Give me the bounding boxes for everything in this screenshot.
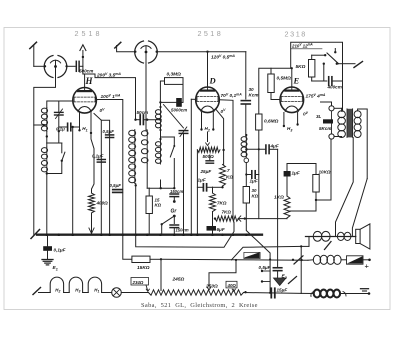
switch mains contact 3 bbox=[323, 63, 325, 65]
capacitor 500cm bbox=[75, 61, 77, 71]
coil L5 tuning right bbox=[146, 130, 148, 164]
svg-text:1KΩ: 1KΩ bbox=[274, 195, 284, 201]
wire 0,6M top to grid wire bbox=[259, 68, 292, 114]
wire terminal1 stub bbox=[331, 102, 333, 106]
speaker horn bbox=[360, 224, 370, 249]
triode E bbox=[280, 87, 304, 113]
wire A heater feed bbox=[136, 222, 234, 247]
svg-text:Saba, 521 GL, Gleichstrom,: Saba, 521 GL, Gleichstrom, 2 Kreise bbox=[141, 302, 258, 309]
node grid coil top bbox=[159, 101, 161, 103]
svg-text:1μF: 1μF bbox=[250, 179, 258, 184]
capacitor 1uF cathode bbox=[202, 184, 204, 191]
switch mains contact 4 bbox=[336, 63, 338, 65]
wire coil L5 to resistor bbox=[146, 164, 148, 189]
wire coil column join bbox=[160, 180, 162, 188]
capacitor 0,1uF heater-block bbox=[67, 123, 69, 131]
switch Gr lower bbox=[162, 216, 175, 224]
wire antenna line tap bbox=[34, 124, 47, 126]
svg-text:25μF: 25μF bbox=[200, 169, 212, 174]
node 7Kh right bbox=[244, 217, 246, 219]
wire cap branch to bus bbox=[72, 127, 74, 235]
wire contact3 down bbox=[323, 64, 325, 81]
node coil L6 top bbox=[159, 106, 161, 108]
wire switch to Gr column bbox=[173, 159, 175, 189]
wire primary top to terminal bbox=[341, 108, 343, 111]
wire 7K lower to cap 6uF bbox=[212, 212, 214, 225]
capacitor 0,1uF ground bbox=[43, 246, 52, 251]
wire band switch down bbox=[47, 161, 62, 174]
node L7 top bbox=[159, 138, 161, 140]
node rheostat end bbox=[244, 291, 246, 293]
svg-text:40Ω: 40Ω bbox=[227, 283, 237, 288]
svg-text:D: D bbox=[209, 76, 216, 86]
wire filament2 down to 400ohm bbox=[91, 133, 94, 193]
wire coil L2 top bbox=[47, 101, 73, 108]
resistor 1Kohm bbox=[284, 196, 290, 218]
wire output drop bbox=[308, 237, 310, 247]
terminal circle L9 bbox=[244, 158, 249, 163]
power box outline bbox=[291, 42, 343, 110]
svg-text:150cm: 150cm bbox=[170, 189, 183, 194]
svg-text:H: H bbox=[85, 76, 94, 86]
wire band switch feed bbox=[47, 142, 62, 144]
wire terminal2 to winding bottom bbox=[334, 136, 342, 138]
wire tube E grid drop bbox=[291, 68, 293, 87]
bus node x109.6 bbox=[108, 233, 111, 236]
wire 0,3M right lead bbox=[182, 81, 184, 102]
label box 40ohm bbox=[226, 281, 237, 288]
wire 30Kcm to coil bbox=[245, 104, 247, 136]
antenna 2 symbol bbox=[115, 42, 121, 48]
resistor 15Kohm vertical bbox=[146, 196, 152, 214]
wire tube D cathode diag bbox=[216, 110, 224, 151]
wire grid col to cluster diag bbox=[246, 219, 270, 260]
wire 0,1uF branch line bbox=[100, 120, 102, 235]
resistor 400ohm bbox=[89, 193, 95, 213]
transformer core bbox=[347, 109, 353, 138]
svg-text:250Ω: 250Ω bbox=[205, 284, 218, 290]
capacitor 0,5uF anode-branch bbox=[106, 134, 114, 136]
svg-text:+: + bbox=[365, 262, 370, 271]
wire row1 drop bbox=[160, 259, 162, 290]
wire grid stub tube H bbox=[84, 74, 86, 88]
wire speaker lead 1 bbox=[336, 138, 354, 237]
wire row2 to cluster bbox=[244, 292, 302, 295]
switch mains contact 1 bbox=[324, 54, 326, 56]
speaker driver bbox=[356, 229, 360, 243]
capacitor 5Kcm speaker bbox=[323, 119, 333, 123]
svg-text:E: E bbox=[293, 76, 300, 86]
resistor 15Kohm horizontal bbox=[132, 256, 150, 262]
rheostat 245ohm bbox=[149, 290, 244, 295]
wire lamp to rheostat bbox=[121, 292, 148, 294]
wire trimmer to bus bbox=[183, 133, 185, 234]
svg-text:7KΩ: 7KΩ bbox=[222, 210, 232, 215]
bus node x160.5 bbox=[159, 233, 162, 236]
resistor 0,5Mohm bbox=[268, 74, 274, 93]
wire 4uF corner down long bbox=[277, 149, 279, 267]
output coil bumps 2 bbox=[337, 232, 344, 240]
output line to speaker bbox=[306, 236, 356, 238]
svg-text:2518: 2518 bbox=[75, 29, 103, 38]
capacitor 4uF bbox=[265, 145, 267, 154]
switch mains lever bbox=[327, 53, 339, 64]
wire cluster link row1 bbox=[269, 260, 271, 293]
svg-text:KΩ: KΩ bbox=[155, 203, 162, 208]
bus node x191.3 bbox=[190, 233, 193, 236]
wire 0,3M left lead bbox=[160, 81, 164, 102]
svg-text:400cm: 400cm bbox=[327, 85, 342, 90]
wire cap to filament bbox=[71, 126, 80, 128]
wire to plus terminal bbox=[363, 259, 370, 261]
node coupler L1 left bbox=[44, 65, 46, 67]
bus node x101.3 bbox=[100, 233, 103, 236]
wire L6 to L7 bbox=[160, 129, 162, 142]
svg-text:500cm: 500cm bbox=[79, 68, 93, 73]
wire junction down to grid corner bbox=[82, 66, 84, 74]
wire tube D anode lead bbox=[219, 100, 233, 219]
wire 5K bottom bbox=[311, 77, 313, 81]
svg-text:0,3MΩ: 0,3MΩ bbox=[167, 72, 182, 78]
switch Gr upper bbox=[173, 137, 175, 146]
wire coil L4 to bus bbox=[135, 184, 137, 235]
wire 10K bottom net bbox=[315, 192, 317, 211]
svg-text:10KΩ: 10KΩ bbox=[319, 170, 331, 175]
bus node x233.0 bbox=[232, 233, 235, 236]
wire 15K to row1 bbox=[150, 258, 161, 260]
svg-text:0,1μF: 0,1μF bbox=[54, 248, 66, 253]
node coupler L8 right bbox=[156, 51, 158, 53]
coil L6 detector bbox=[160, 109, 162, 129]
capacitor cathode bypass bbox=[206, 160, 214, 162]
label box 234ohm bbox=[131, 278, 149, 286]
bus node x246.3 bbox=[245, 233, 248, 236]
wire coupler L8 down bbox=[145, 54, 147, 131]
antenna coil L2 bbox=[46, 108, 48, 132]
resistor 7Kohm horizontal bbox=[215, 216, 239, 221]
capacitor 6uF bbox=[207, 226, 217, 231]
svg-text:KΩ: KΩ bbox=[252, 194, 259, 199]
svg-text:KΩ: KΩ bbox=[226, 175, 233, 180]
output coil bumps 1 bbox=[313, 231, 322, 241]
wire tube D left grid lead bbox=[191, 98, 195, 100]
wire anode top corner down bbox=[245, 52, 247, 99]
transformer secondary winding bbox=[354, 111, 361, 118]
capacitor 150cm upper Gr bbox=[170, 193, 179, 195]
transformer primary winding bbox=[338, 111, 346, 118]
wire trimmer join coil bbox=[58, 131, 60, 143]
capacitor 15uF bbox=[270, 288, 272, 297]
node Gr terminal 1 bbox=[173, 200, 176, 203]
svg-text:400Ω: 400Ω bbox=[96, 201, 109, 206]
wire L9 to 30K bbox=[245, 163, 247, 187]
bus node x174.3 bbox=[173, 233, 176, 236]
svg-text:0,5MΩ: 0,5MΩ bbox=[277, 76, 292, 82]
coil L7 detector bbox=[160, 141, 162, 164]
capacitor 30Kcm bbox=[241, 100, 250, 102]
wire 7K bottom junction bbox=[222, 186, 224, 187]
svg-text:234Ω: 234Ω bbox=[132, 280, 144, 285]
coupler L8 bbox=[135, 41, 158, 63]
wire tube H anode lead bbox=[96, 100, 122, 235]
resistor 10Kohm bbox=[313, 175, 319, 193]
wire tube D grid drop bbox=[207, 52, 209, 88]
wire trimmer down bbox=[58, 116, 60, 131]
dial lamp bbox=[112, 288, 122, 298]
capacitor 1uF det bbox=[251, 171, 253, 179]
resistor 7Kohm upper bbox=[220, 165, 226, 187]
ground symbol E2 bbox=[274, 278, 287, 286]
triode H bbox=[73, 88, 97, 114]
triode D bbox=[196, 87, 220, 113]
switch mains contact 2 bbox=[334, 51, 336, 53]
node L9 top bbox=[245, 134, 247, 136]
node coil L6 bottom bbox=[159, 129, 161, 131]
wire 400cm to box edge bbox=[332, 80, 343, 82]
trimmer capacitor antenna bbox=[58, 101, 60, 112]
node coupler L1 right bbox=[65, 65, 67, 67]
bus node x197.4 bbox=[196, 233, 199, 236]
node coil L3 bottom bbox=[46, 172, 48, 174]
wire riser to output bbox=[301, 245, 309, 247]
wire box edge to winding bbox=[341, 110, 344, 112]
node Gr terminal 2 bbox=[173, 215, 176, 218]
wire Gr column mid bbox=[173, 197, 175, 202]
wire grid top run bbox=[83, 74, 136, 120]
svg-text:2318: 2318 bbox=[285, 29, 307, 38]
wire coil L6 top bbox=[160, 102, 162, 110]
wire 4uF link bbox=[246, 148, 266, 150]
svg-text:4μF: 4μF bbox=[270, 143, 279, 148]
detector coil L9 bbox=[245, 136, 247, 158]
mains switch tick bbox=[354, 62, 363, 68]
wire row2 start bbox=[39, 292, 51, 294]
bus node x135.7 bbox=[134, 233, 137, 236]
terminal circle speaker 1 bbox=[329, 106, 334, 111]
bus left tick bbox=[31, 230, 40, 239]
svg-text:0,6MΩ: 0,6MΩ bbox=[264, 119, 279, 125]
node coupler L8 left bbox=[134, 51, 136, 53]
svg-text:Kcm: Kcm bbox=[249, 93, 259, 98]
capacitor 0,5uF coupling lower bbox=[113, 189, 123, 191]
supply row 1 bbox=[161, 258, 232, 261]
wire 1uF link bbox=[246, 174, 252, 176]
wire pot feed arrow bbox=[207, 132, 209, 142]
resistor 30Kohm bbox=[243, 187, 249, 204]
fuse resistor hatched bbox=[347, 256, 364, 264]
resistor 7Kohm lower bbox=[210, 193, 216, 212]
wire cap to trimmer col bbox=[59, 126, 68, 128]
wire C-500cm to junction bbox=[79, 65, 83, 67]
bus node x122.8 bbox=[122, 233, 125, 236]
svg-text:30: 30 bbox=[249, 87, 255, 92]
wire pot left column bbox=[196, 150, 198, 235]
wire left vertical from coupler bbox=[34, 68, 56, 235]
wire tube E filament 1 bbox=[283, 113, 285, 127]
wire 1K bottom join bbox=[246, 218, 287, 220]
wire antenna1 to coupler bbox=[34, 65, 45, 67]
resistor 0,3Mohm bbox=[165, 78, 184, 85]
wire 0,5M bottom to tube E bbox=[271, 93, 280, 100]
wire 50cm link bbox=[136, 119, 141, 121]
svg-text:30: 30 bbox=[252, 188, 257, 193]
cluster terminal stubs bbox=[262, 270, 270, 272]
wire switch out bbox=[337, 63, 343, 65]
wire bus drop 15K bbox=[123, 235, 132, 260]
bus node x147.2 bbox=[146, 233, 149, 236]
resistor 5Kohm bbox=[309, 60, 315, 78]
wire 10K to left bbox=[290, 210, 316, 212]
wire tube D filament 1 bbox=[201, 112, 203, 129]
wire 30K to bus wire bbox=[245, 203, 247, 219]
capacitor 150cm lower Gr bbox=[170, 224, 179, 226]
wire drop to row2 bbox=[300, 246, 302, 293]
wedge volume bbox=[245, 253, 260, 258]
capacitor 0,1uF left-branch bbox=[97, 159, 105, 161]
svg-text:5KΩ: 5KΩ bbox=[296, 64, 306, 70]
node pot right bbox=[222, 149, 224, 151]
chassis bus bbox=[37, 234, 262, 236]
trimmer capacitor detector bbox=[179, 130, 188, 132]
capacitor 25uF bbox=[203, 159, 206, 161]
wire 0,6M column bbox=[258, 130, 260, 219]
wire grammophone feed bbox=[149, 187, 174, 189]
wire row1 riser bbox=[232, 246, 302, 259]
capacitor 50cm bbox=[139, 115, 141, 125]
bus node x222.5 bbox=[221, 233, 224, 236]
bus node x212.5 bbox=[211, 233, 214, 236]
band switch antenna bbox=[62, 152, 65, 161]
wire coil L5b bbox=[146, 129, 147, 131]
wire coupling row bbox=[287, 163, 316, 165]
bus node x183.5 bbox=[182, 233, 185, 236]
svg-text:5Kcm: 5Kcm bbox=[319, 126, 332, 131]
wire tube H filament lead 1 bbox=[79, 113, 81, 131]
capacitor 5000cm bbox=[176, 98, 182, 107]
wire coupler L1 to C-500cm bbox=[67, 65, 75, 67]
svg-text:5000cm: 5000cm bbox=[171, 108, 187, 113]
row1 switch tick bbox=[292, 259, 294, 261]
antenna coil L3 bbox=[46, 147, 48, 173]
bus node x58.8 bbox=[58, 233, 61, 236]
wire Gr cap to bus bbox=[173, 228, 175, 235]
capacitor 1uF coupling bbox=[284, 171, 291, 177]
svg-text:500Ω: 500Ω bbox=[203, 154, 215, 159]
node 50cm left bbox=[134, 119, 136, 121]
svg-text:3L: 3L bbox=[316, 114, 322, 119]
wire speaker lead 2 bbox=[352, 179, 367, 237]
heater ballast bumps bbox=[50, 277, 63, 292]
svg-text:0,5μF: 0,5μF bbox=[110, 183, 122, 188]
svg-text:0,5μF: 0,5μF bbox=[259, 265, 271, 270]
svg-text:7: 7 bbox=[227, 168, 230, 173]
svg-text:245Ω: 245Ω bbox=[172, 277, 185, 283]
wire volume wiper bbox=[209, 260, 236, 287]
svg-text:15KΩ: 15KΩ bbox=[137, 265, 150, 271]
capacitor 0,5uF output bbox=[273, 267, 282, 269]
antenna 1 symbol bbox=[30, 42, 37, 48]
wire diagonal to trimmer bbox=[164, 105, 184, 129]
speaker switch tick bbox=[325, 242, 332, 250]
wire coil L3 to bus bbox=[46, 173, 48, 235]
wire 400ohm to bus arrow bbox=[91, 213, 93, 234]
wire tube E filament 2 bbox=[297, 113, 299, 125]
svg-text:150cm: 150cm bbox=[176, 228, 189, 233]
svg-text:1μF: 1μF bbox=[292, 171, 300, 176]
svg-text:0,5μF: 0,5μF bbox=[103, 129, 115, 134]
svg-text:1μF: 1μF bbox=[198, 178, 206, 183]
row2 left tick bbox=[33, 288, 41, 295]
potentiometer 500ohm bbox=[197, 147, 220, 152]
wire L7 switch branch bbox=[161, 136, 175, 138]
wire cathode cap link bbox=[197, 186, 203, 188]
svg-text:15μF: 15μF bbox=[277, 288, 288, 293]
coupler L1 bbox=[44, 55, 67, 77]
ground symbol E1 bbox=[42, 260, 53, 265]
coil L4 tuning left bbox=[134, 130, 136, 184]
capacitor 400cm bbox=[328, 77, 330, 86]
wire tube H filament lead 2 bbox=[90, 113, 92, 133]
node coil L2 bottom bbox=[46, 135, 48, 137]
row2 switch tick bbox=[289, 277, 297, 284]
node tube D grid tap bbox=[206, 51, 208, 53]
bus node x46.8 bbox=[46, 233, 49, 236]
svg-text:2518: 2518 bbox=[198, 29, 224, 38]
row1 choke coil bbox=[313, 255, 320, 264]
row2 filter coil bbox=[314, 290, 321, 298]
svg-text:6μF: 6μF bbox=[217, 227, 225, 232]
node 7Kh left bbox=[214, 217, 216, 219]
wire anode supply top bbox=[157, 51, 246, 53]
minus terminal bars bbox=[361, 288, 369, 290]
wire secondary top bbox=[358, 109, 368, 179]
wave-trap arrow up bbox=[82, 51, 84, 67]
wire tube D filament 2 bbox=[212, 112, 214, 129]
wire to minus terminal bbox=[356, 293, 369, 295]
svg-text:7KΩ: 7KΩ bbox=[217, 201, 227, 206]
terminal circle speaker 2 bbox=[329, 134, 334, 139]
bus node x72.7 bbox=[71, 233, 74, 236]
wire 5000cm link bbox=[160, 101, 176, 103]
wire 5K top bbox=[311, 55, 313, 59]
node coil L4 bottom bbox=[135, 184, 137, 186]
wire tube D grid return bbox=[190, 99, 192, 234]
wire pot right to 7K bbox=[223, 150, 225, 165]
wire tube H cathode-0V lead bbox=[94, 114, 110, 235]
resistor 0,6Mohm bbox=[256, 114, 262, 130]
